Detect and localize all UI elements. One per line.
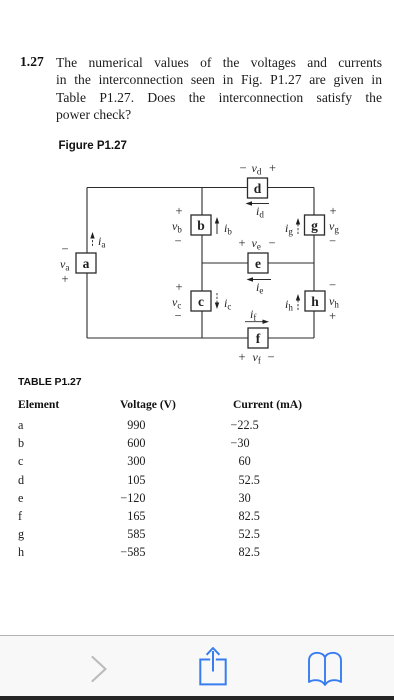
element e bbox=[248, 253, 268, 273]
bottom toolbar bbox=[0, 635, 394, 696]
current arrow i_g bbox=[285, 218, 300, 237]
table header bbox=[18, 398, 59, 411]
label v_d polarity bbox=[239, 161, 276, 177]
element g bbox=[305, 215, 325, 235]
label v_a polarity bbox=[60, 242, 69, 286]
wire top horizontal bbox=[87, 187, 314, 189]
wire bottom horizontal bbox=[87, 337, 314, 339]
forward chevron (disabled) bbox=[93, 657, 106, 681]
table rows bbox=[18, 418, 23, 433]
home indicator bar bbox=[0, 696, 394, 700]
label v_f polarity bbox=[238, 350, 274, 366]
label v_h polarity bbox=[329, 278, 339, 323]
wire middle horizontal bbox=[202, 262, 314, 264]
bookmarks (open book) icon bbox=[309, 653, 341, 685]
current arrow i_c bbox=[215, 293, 232, 312]
table caption bbox=[18, 376, 81, 388]
share icon bbox=[200, 648, 225, 684]
label v_b polarity bbox=[172, 204, 183, 248]
current arrow i_d bbox=[246, 201, 270, 219]
figure caption bbox=[59, 140, 127, 152]
element h bbox=[305, 291, 325, 311]
current arrow i_h bbox=[285, 294, 300, 313]
problem statement paragraph bbox=[20, 54, 43, 70]
label v_g polarity bbox=[329, 204, 339, 248]
current arrow i_a bbox=[90, 232, 105, 250]
element a bbox=[76, 253, 96, 273]
wire middle vertical bbox=[201, 188, 203, 339]
current arrow i_f bbox=[245, 307, 269, 324]
current arrow i_b bbox=[215, 217, 233, 237]
current arrow i_e bbox=[247, 277, 272, 295]
element c bbox=[191, 291, 211, 311]
element f bbox=[248, 328, 268, 348]
wire right vertical bbox=[313, 188, 315, 339]
label v_c polarity bbox=[172, 280, 183, 323]
wire left vertical bbox=[86, 188, 88, 339]
element b bbox=[191, 215, 211, 235]
label v_e polarity bbox=[238, 236, 275, 252]
element d bbox=[248, 178, 268, 198]
